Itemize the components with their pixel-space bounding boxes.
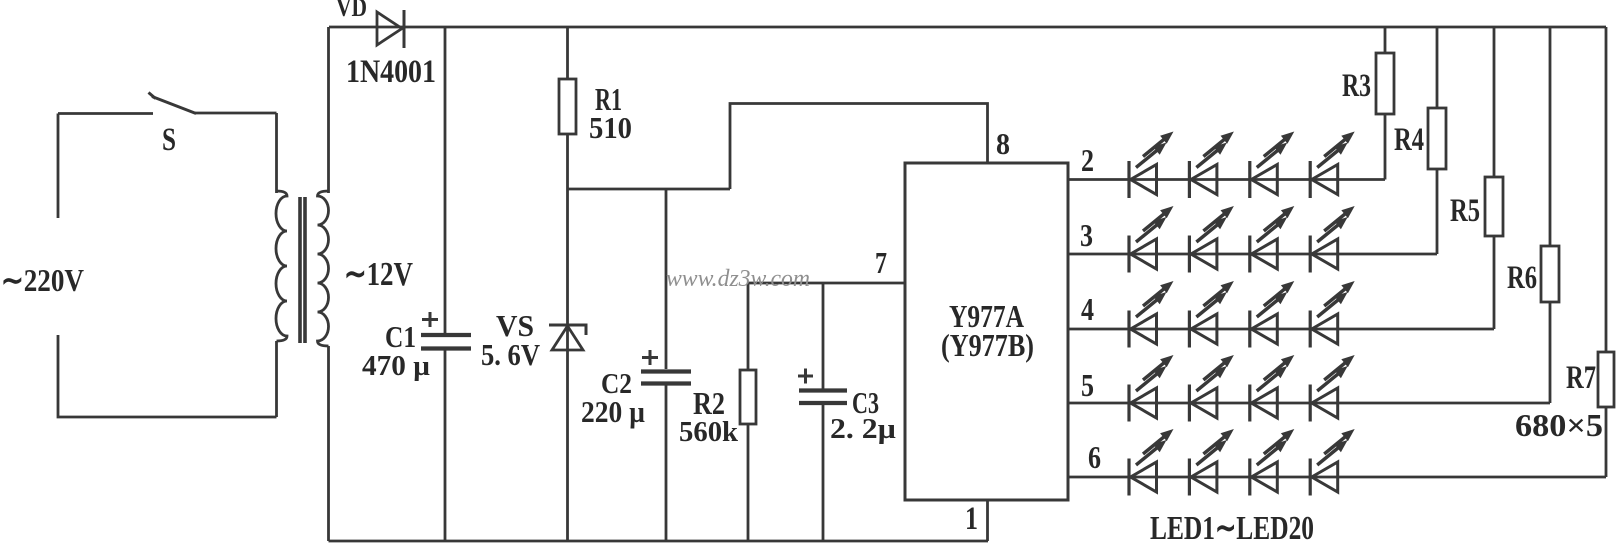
LED D16 <box>1310 355 1355 422</box>
wire 220V top left <box>58 112 153 115</box>
resistor R5 <box>1485 27 1503 329</box>
LED D7 <box>1250 206 1295 273</box>
svg-text:www.dz3w.com: www.dz3w.com <box>666 266 810 292</box>
LED D18 <box>1189 429 1234 496</box>
LED D5 <box>1129 206 1174 273</box>
transformer T primary winding <box>276 191 287 341</box>
zener diode VS <box>549 189 586 541</box>
svg-text:510: 510 <box>589 110 632 145</box>
wire row pin6 <box>1068 476 1606 479</box>
svg-text:R7: R7 <box>1566 360 1596 396</box>
svg-text:5: 5 <box>1081 367 1094 403</box>
transformer T secondary winding <box>318 191 329 346</box>
resistor R1 <box>559 27 576 189</box>
svg-text:R6: R6 <box>1507 260 1537 296</box>
svg-text:∼12V: ∼12V <box>344 256 413 293</box>
svg-text:VD: VD <box>336 0 367 22</box>
svg-text:220 µ: 220 µ <box>581 394 645 429</box>
wire 220V left lower and bottom <box>58 335 277 417</box>
wire secondary top lead <box>327 27 330 193</box>
svg-text:3: 3 <box>1080 217 1093 253</box>
svg-text:560k: 560k <box>679 416 739 448</box>
resistor R6 <box>1541 27 1559 403</box>
wire bottom rail <box>329 540 989 543</box>
wire 220V left upper <box>57 114 60 219</box>
LED D12 <box>1310 281 1355 348</box>
LED D19 <box>1250 429 1295 496</box>
svg-text:4: 4 <box>1081 291 1094 327</box>
capacitor C3 <box>799 283 847 541</box>
LED D8 <box>1310 206 1355 273</box>
svg-text:R3: R3 <box>1342 68 1371 104</box>
LED D9 <box>1129 281 1174 348</box>
wire secondary bottom lead <box>327 346 330 541</box>
svg-text:6: 6 <box>1088 439 1101 475</box>
svg-text:7: 7 <box>875 245 887 280</box>
LED D6 <box>1189 206 1234 273</box>
LED D10 <box>1189 281 1234 348</box>
resistor R4 <box>1428 27 1446 254</box>
wire top rail <box>329 26 1606 29</box>
LED D2 <box>1189 132 1234 199</box>
svg-text:470 µ: 470 µ <box>362 350 430 382</box>
svg-text:(Y977B): (Y977B) <box>941 327 1034 363</box>
capacitor C2 plus <box>642 350 658 365</box>
capacitor C2 <box>641 189 691 541</box>
svg-text:680×5: 680×5 <box>1515 407 1603 443</box>
svg-text:R5: R5 <box>1450 193 1480 229</box>
resistor R7 <box>1598 27 1614 477</box>
wire primary bottom lead <box>275 341 278 417</box>
svg-text:S: S <box>162 122 176 158</box>
LED D14 <box>1189 355 1234 422</box>
LED D4 <box>1310 132 1355 199</box>
wire pin8 net <box>730 104 988 190</box>
wire row pin5 <box>1068 402 1550 405</box>
diode VD <box>377 10 404 48</box>
svg-text:2: 2 <box>1081 142 1094 178</box>
LED D1 <box>1129 132 1174 199</box>
LED D13 <box>1129 355 1174 422</box>
svg-text:C1: C1 <box>385 319 416 354</box>
svg-text:1: 1 <box>965 501 978 537</box>
svg-text:LED1∼LED20: LED1∼LED20 <box>1150 510 1314 547</box>
switch S <box>149 93 197 114</box>
svg-text:1N4001: 1N4001 <box>346 54 436 90</box>
wire row pin3 <box>1068 253 1437 256</box>
LED D3 <box>1250 132 1295 199</box>
wire pin7 net <box>748 282 905 285</box>
resistor R2 <box>740 283 756 541</box>
LED D11 <box>1250 281 1295 348</box>
svg-text:8: 8 <box>996 126 1010 161</box>
LED D20 <box>1310 429 1355 496</box>
wire primary top lead <box>275 113 278 193</box>
wire row pin2 <box>1068 178 1385 181</box>
resistor R3 <box>1376 27 1394 180</box>
IC U1 Y977A <box>905 163 1068 500</box>
wire node R1 bottom to C2 <box>568 188 731 191</box>
capacitor C1 <box>421 27 471 541</box>
wire row pin4 <box>1068 328 1494 331</box>
capacitor C1 plus <box>422 312 438 327</box>
svg-text:R4: R4 <box>1394 122 1424 158</box>
capacitor C3 plus <box>798 369 813 384</box>
transformer T core <box>300 197 305 343</box>
wire pin1 lead <box>986 500 989 541</box>
wire switch to transformer <box>195 112 277 115</box>
svg-text:∼220V: ∼220V <box>1 262 84 298</box>
svg-text:2. 2µ: 2. 2µ <box>830 413 896 445</box>
LED D15 <box>1250 355 1295 422</box>
LED D17 <box>1129 429 1174 496</box>
svg-text:5. 6V: 5. 6V <box>481 337 541 372</box>
